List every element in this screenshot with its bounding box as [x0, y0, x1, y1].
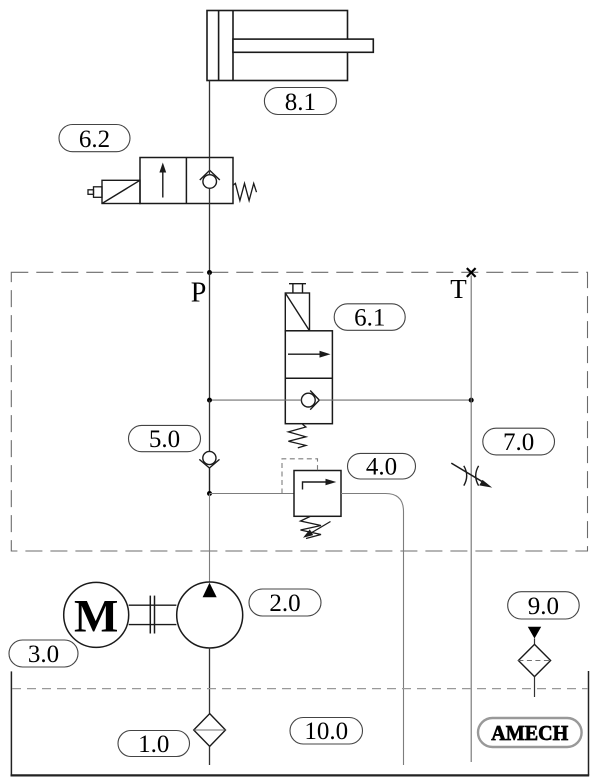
check valve 5.0 circle — [203, 451, 216, 464]
svg-text:8.1: 8.1 — [285, 89, 316, 116]
shaft motor to pump — [129, 605, 177, 624]
svg-text:AMECH: AMECH — [491, 721, 568, 745]
valve 6.2 flow arrow — [162, 169, 164, 198]
AMECH logo — [478, 718, 582, 747]
throttle valve 7.0 arcs — [464, 466, 479, 486]
label 2.0 — [249, 589, 321, 617]
svg-text:5.0: 5.0 — [149, 426, 180, 453]
valve 6.1 check valve seat — [310, 391, 319, 410]
wire junction down to pump 2.0 — [209, 494, 211, 584]
svg-text:9.0: 9.0 — [528, 593, 559, 620]
label 10.0 — [290, 718, 363, 746]
svg-text:T: T — [450, 274, 467, 304]
spring 4.0 with adjustment arrow — [301, 517, 322, 539]
valve 6.2 check valve seat — [200, 170, 220, 180]
tank 10.0 outline — [11, 671, 590, 775]
solenoid 6.1 connector stub — [289, 284, 306, 293]
power unit boundary dashed box — [11, 272, 587, 551]
node P junction dot — [207, 270, 212, 275]
node T blocked port x marker — [467, 268, 476, 277]
check valve 5.0 seat — [199, 459, 219, 468]
wire relief valve 4.0 drain to tank — [341, 494, 404, 766]
pump 2.0 circle — [177, 582, 243, 648]
relief valve 4.0 pilot dashed line — [282, 459, 318, 494]
junction dot at relief branch — [207, 491, 212, 496]
svg-text:3.0: 3.0 — [28, 641, 59, 668]
wire filter 1.0 into tank — [209, 746, 211, 765]
label 4.0 — [348, 453, 416, 480]
label 9.0 — [508, 592, 580, 620]
junction dot P line at 6.1 level — [207, 398, 212, 403]
breather 9.0 dashed mid line — [518, 660, 550, 662]
wire breather 9.0 into tank — [534, 677, 536, 697]
svg-text:10.0: 10.0 — [304, 718, 348, 745]
wire valve 6.2 to node P — [209, 204, 211, 273]
wire check valve 5.0 to junction — [209, 468, 211, 494]
wire junction to relief valve 4.0 — [210, 493, 295, 495]
coupling — [150, 596, 154, 634]
pump 2.0 flow triangle — [203, 583, 217, 597]
svg-text:6.1: 6.1 — [354, 305, 385, 332]
svg-text:2.0: 2.0 — [269, 590, 300, 617]
tank fluid level dashed line — [12, 688, 588, 690]
valve 6.1 body — [285, 331, 332, 424]
relief valve 4.0 internal arrow — [303, 482, 328, 490]
svg-text:4.0: 4.0 — [366, 454, 397, 481]
cylinder 8.1 piston rod — [233, 39, 373, 52]
label 3.0 — [9, 640, 78, 668]
cylinder 8.1 body — [207, 11, 348, 81]
relief valve 4.0 body — [294, 471, 341, 517]
wire P line to check valve 5.0 — [209, 400, 211, 451]
label 6.1 — [334, 304, 405, 332]
wire valve 6.1 to node T line — [319, 399, 471, 401]
filter 1.0 mid line — [194, 729, 226, 731]
svg-text:1.0: 1.0 — [138, 731, 169, 758]
svg-text:M: M — [74, 591, 118, 643]
valve 6.2 check line segments — [209, 158, 211, 204]
svg-text:P: P — [191, 278, 207, 309]
wire node P branch to valve 6.1 — [210, 399, 302, 401]
spring 6.2 — [233, 183, 257, 200]
breather 9.0 triangle — [528, 627, 541, 639]
svg-text:6.2: 6.2 — [79, 126, 110, 153]
valve 6.2 check valve circle — [203, 175, 217, 189]
wire T line from x marker down to tank — [470, 276, 472, 763]
valve 6.2 body — [140, 158, 233, 204]
spring 6.1 — [288, 424, 306, 448]
junction dot T line at 6.1 level — [469, 398, 474, 403]
valve 6.1 check valve circle — [301, 393, 315, 407]
breather 9.0 diamond — [518, 644, 550, 676]
throttle valve 7.0 adjustment arrow — [451, 463, 486, 484]
label 8.1 — [264, 88, 336, 117]
solenoid 6.2 connector stub — [88, 187, 102, 198]
svg-text:7.0: 7.0 — [503, 429, 534, 456]
label 1.0 — [118, 731, 190, 759]
wire cylinder port to valve 6.2 — [209, 81, 211, 158]
valve 6.1 flow arrow — [288, 353, 322, 355]
wire pump 2.0 to filter 1.0 — [209, 648, 211, 714]
wire P line node P to junction at valve 6.1 level — [209, 273, 211, 401]
motor 3.0 circle — [64, 582, 129, 647]
label 5.0 — [129, 425, 201, 453]
solenoid 6.1 — [285, 293, 309, 331]
label 6.2 — [59, 125, 130, 154]
solenoid 6.2 — [102, 180, 140, 203]
label 7.0 — [483, 428, 555, 456]
filter 1.0 diamond — [194, 714, 226, 747]
breather 9.0 line to diamond — [534, 639, 536, 645]
